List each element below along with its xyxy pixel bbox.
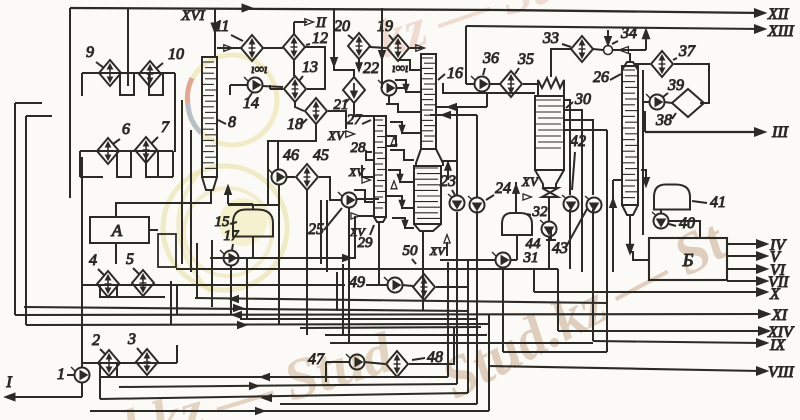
svg-text:6: 6 [122,121,130,138]
svg-text:XV: XV [429,244,446,258]
svg-text:29: 29 [358,235,374,251]
svg-text:43: 43 [552,240,568,257]
svg-text:XI: XI [771,307,788,324]
svg-text:11: 11 [215,18,230,35]
svg-text:4: 4 [89,252,97,269]
svg-text:ı∞ı: ı∞ı [392,60,409,75]
svg-text:27: 27 [347,112,364,128]
svg-text:39: 39 [667,77,684,94]
svg-text:49: 49 [349,274,365,291]
svg-text:22: 22 [363,60,379,77]
svg-text:46: 46 [283,147,299,164]
svg-text:23: 23 [440,173,456,190]
svg-text:5: 5 [126,251,134,268]
svg-text:ı∞ı: ı∞ı [251,61,268,76]
svg-text:III: III [771,124,789,141]
svg-text:13: 13 [302,59,318,76]
svg-text:38: 38 [655,112,672,129]
svg-text:42: 42 [570,133,586,150]
svg-text:XII: XII [767,6,789,23]
svg-text:20: 20 [334,18,350,35]
svg-text:33: 33 [542,30,559,47]
svg-text:I: I [5,374,12,391]
svg-text:10: 10 [168,46,184,63]
svg-text:17: 17 [224,228,241,244]
svg-text:30: 30 [574,91,591,108]
svg-text:26: 26 [593,69,609,86]
svg-text:XVI: XVI [180,8,205,24]
svg-text:IX: IX [769,337,786,354]
svg-text:X: X [769,286,781,303]
svg-text:35: 35 [517,51,534,68]
svg-text:28: 28 [351,140,367,156]
svg-text:2: 2 [92,332,100,349]
svg-text:50: 50 [403,243,419,259]
svg-text:A: A [111,221,123,240]
svg-text:45: 45 [313,147,329,164]
svg-text:7: 7 [161,119,170,136]
svg-text:41: 41 [710,194,726,211]
svg-text:36: 36 [482,50,499,67]
svg-text:8: 8 [228,114,236,131]
svg-text:3: 3 [127,331,136,348]
svg-text:31: 31 [523,250,539,266]
svg-text:16: 16 [447,65,463,82]
svg-text:19: 19 [377,18,393,35]
svg-text:XV: XV [327,128,346,143]
svg-text:18: 18 [287,116,303,133]
svg-text:14: 14 [243,95,259,112]
svg-text:Б: Б [682,250,694,270]
svg-text:34: 34 [620,25,637,42]
svg-text:40: 40 [679,215,695,232]
svg-text:37: 37 [678,43,696,60]
svg-text:32: 32 [532,204,549,220]
svg-text:II: II [315,15,327,31]
svg-text:VIII: VIII [768,364,794,381]
svg-text:1: 1 [57,366,65,383]
svg-text:47: 47 [308,351,325,368]
svg-text:XV: XV [521,174,540,189]
svg-text:XIII: XIII [767,23,794,40]
svg-text:12: 12 [312,30,328,47]
svg-text:9: 9 [86,44,94,61]
svg-text:24: 24 [495,180,511,197]
